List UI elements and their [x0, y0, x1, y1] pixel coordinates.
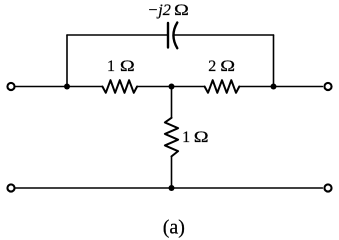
- node center junction dot: [169, 84, 175, 90]
- wire top branch right horizontal: [173, 34, 273, 36]
- capacitor C1 right curved plate: [173, 23, 177, 49]
- wire top branch left vertical: [66, 35, 68, 87]
- svg-text:Ω: Ω: [220, 57, 235, 75]
- svg-text:2: 2: [208, 58, 216, 75]
- wire bottom rail: [16, 187, 323, 189]
- wire vertical resistor bottom lead: [171, 156, 173, 188]
- wire middle rail right segment: [239, 86, 322, 88]
- wire vertical resistor top lead: [171, 87, 173, 118]
- terminal middle-left: [7, 83, 14, 90]
- svg-text:Ω: Ω: [120, 57, 135, 75]
- wire middle rail left segment: [16, 86, 103, 88]
- terminal bottom-right: [324, 184, 331, 191]
- node A junction dot: [64, 84, 70, 90]
- resistor R2 2ohm zigzag: [205, 80, 240, 93]
- svg-text:1: 1: [182, 129, 190, 146]
- svg-text:Ω: Ω: [174, 1, 189, 19]
- node bottom junction dot: [169, 185, 175, 191]
- svg-text:Ω: Ω: [194, 128, 209, 146]
- svg-text:(a): (a): [163, 216, 185, 238]
- wire middle rail center segment: [137, 86, 205, 88]
- terminal middle-right: [324, 83, 331, 90]
- svg-text:−j2: −j2: [147, 2, 171, 19]
- resistor R1 1ohm zigzag: [102, 80, 137, 93]
- wire top branch right vertical: [273, 35, 275, 87]
- terminal bottom-left: [7, 184, 14, 191]
- node B junction dot: [271, 84, 277, 90]
- resistor R3 1ohm vertical zigzag: [165, 118, 178, 157]
- svg-text:1: 1: [107, 58, 115, 75]
- capacitor C1 left plate: [167, 23, 169, 48]
- wire top branch left horizontal: [67, 34, 168, 36]
